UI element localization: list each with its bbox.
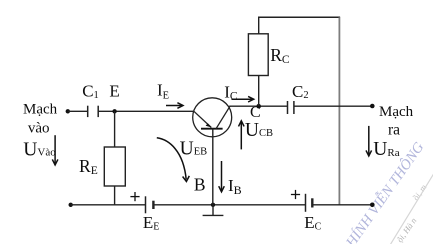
- Uvao arrow: [52, 135, 58, 165]
- Mach vao label: [23, 102, 58, 137]
- base junction node B: [211, 203, 215, 207]
- wire input to C1: [68, 110, 88, 112]
- wire C1 to transistor emitter: [98, 110, 194, 112]
- svg-text:vào: vào: [28, 121, 50, 137]
- UCB arrow: [239, 121, 245, 150]
- wire RC to top rail: [258, 17, 260, 34]
- svg-text:ội, Hà n: ội, Hà n: [394, 216, 418, 244]
- svg-text:C2: C2: [292, 82, 309, 101]
- URa arrow: [366, 126, 372, 156]
- node E junction: [112, 109, 116, 113]
- right vertical wire: [338, 17, 340, 205]
- wire RE to bottom rail: [114, 186, 116, 205]
- IC arrow: [232, 96, 254, 102]
- Mach ra label: [379, 104, 414, 138]
- svg-text:C1: C1: [82, 82, 99, 102]
- transistor emitter diagonal with arrow: [194, 111, 212, 127]
- bottom rail left: [71, 204, 146, 206]
- svg-text:B: B: [194, 175, 206, 195]
- svg-text:EC: EC: [304, 213, 321, 232]
- transistor Q1 circle: [193, 98, 232, 137]
- svg-text:EE: EE: [143, 213, 160, 232]
- svg-text:Mạch: Mạch: [23, 102, 58, 118]
- svg-text:IB: IB: [228, 176, 242, 197]
- svg-text:IE: IE: [157, 81, 169, 102]
- svg-text:RE: RE: [79, 156, 98, 177]
- output top terminal node: [370, 104, 375, 109]
- resistor RE: [104, 147, 125, 186]
- capacitor C2: [288, 101, 294, 114]
- svg-text:UCB: UCB: [245, 120, 273, 141]
- battery EC: [306, 194, 313, 212]
- svg-text:UVào: UVào: [23, 140, 56, 161]
- wire node C up to RC: [258, 76, 260, 107]
- ground: [203, 205, 224, 216]
- battery EE: [146, 196, 154, 213]
- IB arrow: [219, 161, 225, 192]
- UEB curved arrow: [157, 138, 190, 182]
- IE arrow: [166, 103, 183, 109]
- svg-text:UEB: UEB: [180, 138, 208, 159]
- svg-text:ồi, m: ồi, m: [410, 182, 428, 202]
- watermark VIEN THONG: [341, 138, 433, 244]
- capacitor C1: [88, 106, 99, 117]
- svg-text:E: E: [109, 82, 119, 101]
- transistor collector diagonal: [216, 106, 230, 129]
- bottom rail right: [312, 204, 372, 206]
- input terminal node: [66, 109, 70, 113]
- svg-text:ra: ra: [388, 122, 400, 139]
- bottom-left terminal node: [69, 203, 73, 207]
- transistor base bar: [201, 128, 223, 130]
- node C junction: [256, 104, 261, 109]
- output bottom terminal node: [370, 203, 375, 208]
- top rail: [258, 16, 340, 18]
- bottom rail middle: [153, 204, 305, 206]
- battery EE plus sign: [130, 192, 139, 201]
- svg-text:RC: RC: [270, 45, 290, 66]
- collector wire to node C: [229, 105, 287, 107]
- wire node E down to RE: [114, 111, 116, 147]
- resistor RC: [248, 34, 268, 76]
- svg-text:URa: URa: [373, 139, 399, 160]
- svg-text:C: C: [250, 104, 261, 121]
- battery EC plus sign: [291, 190, 300, 199]
- output wire C2 to terminal: [294, 105, 372, 107]
- svg-text:Mạch: Mạch: [379, 104, 414, 120]
- transistor base lead: [212, 128, 214, 204]
